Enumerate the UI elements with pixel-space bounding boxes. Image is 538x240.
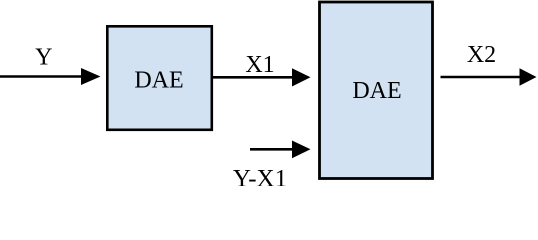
label Y-X1 bbox=[233, 166, 287, 193]
svg-text:DAE: DAE bbox=[134, 67, 183, 93]
svg-text:DAE: DAE bbox=[352, 78, 401, 104]
svg-text:X1: X1 bbox=[245, 52, 274, 78]
svg-text:Y-X1: Y-X1 bbox=[233, 166, 287, 187]
wire X1 arrow bbox=[213, 68, 311, 86]
block DAE U2 bbox=[320, 2, 433, 179]
svg-text:X2: X2 bbox=[467, 42, 496, 68]
label DAE U1 bbox=[134, 67, 183, 93]
wire Y-X1 arrow bbox=[250, 141, 311, 159]
block DAE U1 bbox=[107, 26, 212, 130]
wire X2 arrow bbox=[441, 68, 537, 85]
label X2 bbox=[467, 42, 496, 68]
wire Y arrow bbox=[0, 68, 101, 85]
svg-text:Y: Y bbox=[35, 45, 52, 71]
label DAE U2 bbox=[352, 78, 401, 104]
label X1 bbox=[245, 52, 274, 78]
label Y bbox=[35, 45, 52, 71]
